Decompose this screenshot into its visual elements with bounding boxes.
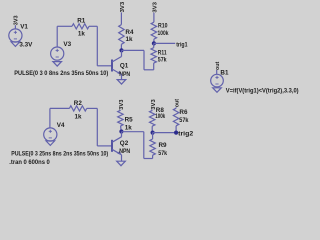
svg-text:1k: 1k [78, 31, 86, 38]
svg-text:57k: 57k [158, 56, 167, 63]
ground [213, 88, 222, 93]
svg-text:V=if(V(trig1)<V(trig2),3.3,0): V=if(V(trig1)<V(trig2),3.3,0) [226, 88, 299, 95]
voltage source V1 [9, 29, 22, 42]
wire [120, 126, 123, 131]
node Q2 collector junction [119, 129, 123, 133]
node Q1 collector junction [119, 48, 123, 52]
wire [121, 50, 123, 56]
behavioral source B1 [211, 74, 224, 87]
svg-text:R11: R11 [158, 49, 167, 56]
voltage source V4 [44, 128, 57, 141]
resistor R8 [150, 110, 155, 126]
transistor Q1 [111, 60, 113, 72]
wire [56, 26, 58, 47]
wire [119, 109, 121, 112]
resistor R1 [72, 24, 89, 29]
svg-text:NPN: NPN [119, 148, 130, 155]
node R8 R9 junction [151, 131, 155, 135]
wire [153, 132, 177, 134]
svg-text:.tran 0 600ns 0: .tran 0 600ns 0 [9, 159, 50, 166]
resistor R11 [151, 48, 156, 63]
transistor Q2 [111, 140, 113, 152]
wire [175, 126, 177, 133]
svg-text:3V3: 3V3 [119, 99, 125, 110]
wire [121, 132, 123, 137]
svg-text:57k: 57k [158, 150, 167, 157]
svg-text:trig1: trig1 [176, 41, 188, 48]
voltage source V3 [51, 47, 64, 60]
svg-text:PULSE(0 3 0 8ns 2ns 35ns 50ns: PULSE(0 3 0 8ns 2ns 35ns 50ns 10) [14, 70, 108, 77]
svg-text:trig2: trig2 [178, 131, 194, 138]
wire [121, 75, 123, 80]
svg-text:V4: V4 [57, 122, 65, 129]
wire [152, 133, 154, 139]
svg-text:PULSE(0 3 25ns 8ns 2ns 35ns 50: PULSE(0 3 25ns 8ns 2ns 35ns 50ns 10) [11, 150, 108, 157]
wire [96, 26, 98, 66]
wire [50, 107, 70, 109]
resistor R4 [119, 25, 124, 45]
wire [97, 65, 112, 67]
resistor R5 [118, 110, 123, 126]
wire [49, 108, 51, 128]
wire [175, 106, 177, 109]
svg-text:3.3V: 3.3V [19, 41, 33, 48]
wire [143, 50, 145, 69]
wire [89, 25, 97, 27]
wire [122, 131, 144, 133]
wire [153, 13, 155, 23]
wire [120, 12, 122, 24]
wire [122, 49, 145, 51]
svg-text:R2: R2 [74, 100, 83, 107]
wire [120, 44, 122, 50]
ground [11, 42, 20, 47]
wire [154, 42, 175, 44]
wire [97, 145, 112, 147]
svg-text:Q1: Q1 [120, 62, 129, 69]
wire [144, 69, 154, 71]
wire [87, 107, 98, 109]
resistor R6 [173, 108, 178, 126]
wire [153, 43, 155, 47]
wire [151, 126, 153, 132]
svg-text:3V3: 3V3 [120, 1, 126, 12]
resistor R10 [151, 22, 156, 39]
wire [153, 63, 155, 70]
wire [152, 155, 154, 158]
wire [144, 158, 153, 160]
svg-text:Q2: Q2 [120, 140, 129, 147]
svg-text:B1: B1 [220, 70, 229, 77]
ground [117, 80, 126, 85]
svg-text:1k: 1k [126, 36, 134, 43]
wire [14, 25, 16, 29]
svg-text:100k: 100k [155, 113, 165, 120]
svg-text:V3: V3 [63, 41, 71, 48]
wire [96, 108, 98, 145]
svg-text:3V3: 3V3 [14, 15, 20, 25]
svg-text:R6: R6 [179, 109, 188, 116]
svg-text:R10: R10 [158, 22, 168, 29]
wire [151, 109, 153, 112]
svg-text:V1: V1 [20, 24, 28, 31]
wire [121, 155, 123, 161]
wire [143, 132, 145, 159]
wire [153, 39, 155, 43]
svg-text:3V3: 3V3 [152, 1, 158, 12]
ground [117, 161, 126, 166]
svg-text:out: out [174, 99, 180, 107]
svg-text:1k: 1k [125, 124, 133, 131]
resistor R9 [150, 139, 155, 155]
wire [216, 70, 218, 74]
svg-text:R9: R9 [159, 142, 168, 149]
node trig1 [152, 41, 156, 45]
ground [53, 62, 62, 67]
svg-text:100k: 100k [158, 30, 169, 37]
node trig2 [174, 131, 178, 135]
resistor R2 [69, 106, 86, 111]
ground [46, 141, 55, 146]
svg-text:R1: R1 [77, 17, 86, 24]
svg-text:1k: 1k [75, 114, 83, 121]
svg-text:57k: 57k [179, 117, 189, 124]
svg-text:R5: R5 [125, 117, 134, 124]
wire [57, 25, 72, 27]
